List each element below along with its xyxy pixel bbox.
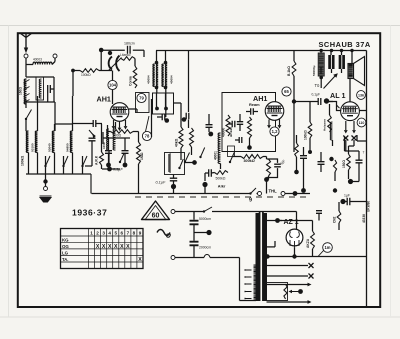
svg-text:Corna: Corna (129, 76, 133, 86)
junction (264, 177, 269, 193)
cap C21 (318, 152, 325, 172)
svg-text:AH1: AH1 (97, 95, 111, 104)
svg-text:03640: 03640 (47, 143, 51, 152)
wire (181, 148, 197, 165)
tuning coil bank L6 (65, 131, 72, 174)
mains switch S7 (249, 188, 262, 204)
wire (240, 258, 257, 301)
wire (292, 247, 296, 259)
grid coil L9 (214, 133, 221, 169)
svg-text:7: 7 (363, 151, 365, 155)
border frame (18, 33, 380, 307)
grid leak resistor R22 (304, 102, 313, 155)
wire (37, 96, 39, 131)
label 160 (19, 87, 23, 95)
tube V2 pins (267, 120, 281, 129)
volume coil (169, 154, 171, 172)
resistor R9 (190, 128, 194, 155)
chassis hatching (135, 196, 306, 198)
grid cap C19 (310, 93, 333, 106)
svg-text:79: 79 (139, 96, 144, 101)
svg-text:100kΩ: 100kΩ (21, 155, 25, 166)
svg-text:2: 2 (96, 231, 99, 236)
resistor R10 (137, 132, 144, 165)
antenna coil L2 (24, 79, 30, 104)
svg-text:300kΩ: 300kΩ (244, 159, 255, 163)
circle 110 (357, 118, 366, 127)
svg-text:1µF: 1µF (344, 194, 350, 198)
svg-text:0,1µF: 0,1µF (156, 181, 166, 185)
circle 136 (357, 91, 366, 100)
tube AH1 V1 (110, 103, 129, 122)
wire (293, 87, 295, 153)
svg-text:B.1kΩ: B.1kΩ (287, 66, 291, 76)
secondary arrow A1 (267, 283, 312, 287)
coupling cap C10 (246, 108, 258, 115)
svg-text:1MΩ: 1MΩ (140, 152, 144, 160)
svg-text:65: 65 (284, 89, 289, 94)
cap C15 (205, 169, 211, 181)
grid resistor R17 (323, 104, 332, 132)
switch S9 (199, 148, 204, 159)
wire (54, 58, 56, 62)
svg-text:1936·37: 1936·37 (72, 208, 107, 218)
svg-text:CN2: CN2 (333, 216, 337, 223)
wire (99, 70, 112, 72)
svg-text:0,1µF: 0,1µF (113, 168, 123, 172)
junction (99, 48, 104, 53)
tube V1 cathode pins (112, 120, 128, 131)
svg-text:5000cm: 5000cm (199, 217, 211, 221)
cap C16 (235, 137, 242, 143)
mains terminal lower (171, 256, 175, 260)
coupling cap C5 (157, 114, 169, 123)
svg-text:5: 5 (114, 231, 117, 236)
grid circle (137, 93, 146, 102)
svg-text:40004: 40004 (170, 75, 174, 84)
resistor R13 (248, 117, 252, 146)
wire (285, 191, 310, 196)
tube AH1 second label (253, 94, 267, 103)
earth-side terminal (53, 54, 57, 58)
transformer core (260, 212, 263, 301)
label (367, 201, 371, 212)
HT choke (312, 53, 324, 88)
coil form (36, 77, 44, 100)
wire (292, 99, 310, 103)
tube V3 pins (343, 121, 356, 151)
svg-text:Tö: Tö (315, 83, 321, 88)
wire (232, 156, 267, 158)
svg-text:8: 8 (133, 231, 136, 236)
svg-text:X: X (114, 244, 118, 250)
transformer primary hatching (256, 214, 260, 301)
svg-text:9: 9 (139, 231, 142, 236)
coil L11 (325, 102, 341, 147)
svg-text:40004: 40004 (147, 75, 151, 84)
wave table X marks (96, 244, 142, 263)
label 0.1uF (113, 168, 123, 172)
terminal (281, 192, 285, 196)
svg-text:2000cm: 2000cm (199, 246, 211, 250)
svg-text:LG: LG (62, 251, 69, 256)
wire (54, 124, 56, 131)
transformer secondary hatching (254, 214, 268, 301)
resistor R12 (222, 115, 233, 137)
wire (101, 49, 125, 51)
label AL1 (330, 91, 345, 100)
label (218, 184, 226, 189)
secondary tap (267, 241, 276, 247)
wire (71, 69, 80, 73)
wire (345, 137, 360, 184)
screen resistor R11 (287, 61, 296, 76)
svg-text:X: X (96, 244, 100, 250)
svg-text:110: 110 (359, 121, 365, 125)
svg-text:7: 7 (127, 231, 130, 236)
page edge scan line left (8, 26, 10, 318)
primary taps (246, 268, 252, 300)
secondary tap centre (265, 254, 276, 258)
screen circle (108, 80, 117, 89)
cap bank rail (103, 132, 130, 144)
label (362, 214, 366, 223)
junction (43, 174, 47, 186)
junction (247, 145, 252, 150)
tube AL1 V3 (337, 79, 367, 121)
wire (100, 50, 102, 71)
switch S2a (44, 156, 50, 174)
wire (165, 88, 167, 118)
switch S6 (228, 146, 235, 163)
heater arrow (289, 289, 303, 294)
svg-text:TA.: TA. (62, 257, 68, 262)
cathode resistor R18 (342, 146, 350, 170)
wire (293, 51, 295, 87)
output transformer wire (357, 135, 367, 141)
antenna terminal (24, 54, 28, 58)
svg-text:40kΩ: 40kΩ (175, 138, 179, 147)
svg-text:60: 60 (152, 213, 160, 220)
svg-text:OG: OG (62, 244, 69, 249)
IF winding T1a (153, 51, 158, 90)
svg-text:180cm: 180cm (124, 42, 135, 46)
svg-text:104: 104 (109, 83, 117, 88)
cap C12 (237, 114, 243, 131)
wire (108, 125, 111, 138)
wave table box (61, 229, 144, 269)
secondary arrow X1 (267, 263, 314, 268)
wire (55, 123, 73, 125)
svg-text:UKW80: UKW80 (367, 201, 371, 212)
IF winding labels (147, 75, 174, 84)
trimmer C3 (89, 130, 96, 141)
svg-text:100kΩ: 100kΩ (81, 73, 91, 77)
switch S5 (178, 159, 183, 169)
coupling cap C6 (182, 113, 189, 122)
speaker (348, 51, 365, 86)
agc resistor R6 (80, 69, 99, 77)
svg-text:50000μ: 50000μ (312, 65, 316, 76)
ground (40, 196, 52, 202)
wire (26, 93, 55, 124)
voltage selector caps (190, 212, 212, 258)
resistor R20 (333, 211, 341, 223)
wire (151, 99, 153, 137)
resistor R5 (129, 59, 137, 89)
svg-text:HF/EW: HF/EW (229, 127, 233, 137)
wave table row labels (62, 238, 69, 263)
rectifier AZ1 V4 (286, 229, 303, 247)
wire (133, 50, 144, 57)
svg-text:400Ω: 400Ω (113, 134, 122, 138)
svg-text:Alkr: Alkr (218, 184, 226, 189)
tube AH1 label (97, 95, 111, 104)
B+ rail right (366, 51, 368, 307)
circle 140 (318, 243, 332, 257)
junction (107, 167, 112, 172)
electrolytic C18 (340, 51, 344, 74)
cap C22 (300, 147, 307, 193)
svg-text:X: X (120, 244, 124, 250)
svg-text:500kΩ: 500kΩ (216, 177, 226, 181)
svg-text:43338: 43338 (362, 214, 366, 223)
antenna coupling coil L1 (26, 58, 55, 65)
chassis bus (91, 174, 250, 194)
page edge scan line bottom (0, 316, 400, 318)
svg-text:Ream: Ream (249, 102, 260, 107)
capacitor C4 (128, 46, 131, 54)
cap C11 (206, 114, 214, 136)
wire HT rail (156, 50, 294, 52)
rectifier resistor R21 (306, 221, 314, 257)
electrolytic C17 (330, 51, 334, 74)
svg-text:6: 6 (121, 231, 124, 236)
mains squiggle (157, 230, 170, 238)
junction (192, 160, 197, 165)
wire coil-bank bus (26, 173, 91, 175)
wire (294, 49, 367, 52)
svg-text:04800: 04800 (65, 143, 69, 152)
detector resistor R14 (241, 155, 263, 164)
page edge scan line top (0, 25, 400, 27)
anode box (136, 93, 150, 113)
page edge scan line right (390, 26, 392, 318)
svg-text:40000: 40000 (222, 128, 226, 137)
RC network R15 C13 (267, 157, 281, 180)
circle 78 (142, 131, 151, 140)
svg-text:1,2: 1,2 (272, 129, 278, 134)
secondary arrow A2 (267, 300, 312, 304)
svg-text:X: X (102, 244, 106, 250)
tuning coil bank L4 (30, 131, 37, 174)
wire (54, 124, 56, 131)
triangle 60 (142, 201, 170, 220)
label Beam (249, 102, 260, 107)
wire (175, 211, 203, 213)
vertical feed (188, 51, 190, 113)
wire (133, 131, 139, 133)
grid resistor R4 (120, 53, 135, 60)
svg-text:Litzeko: Litzeko (120, 53, 131, 57)
svg-text:40003: 40003 (33, 58, 42, 62)
switch S4 (119, 153, 124, 163)
svg-text:X: X (138, 257, 142, 263)
band switch S1 (25, 110, 32, 132)
svg-text:THL: THL (269, 189, 278, 194)
chassis terminal (44, 187, 48, 191)
label AZ1 (284, 219, 299, 226)
wire (204, 185, 206, 194)
wire (174, 102, 182, 104)
svg-text:160Ω: 160Ω (19, 87, 23, 95)
secondary tap HT top (267, 218, 283, 223)
volume box (165, 153, 185, 175)
wire (320, 51, 322, 75)
svg-text:78: 78 (145, 134, 150, 139)
tone switch (315, 73, 338, 88)
svg-text:SCHAUB 37A: SCHAUB 37A (319, 40, 371, 49)
svg-text:3: 3 (102, 231, 105, 236)
year 1936-37 (72, 208, 107, 218)
variable capacitor VC1 (108, 51, 122, 71)
svg-text:AKZA: AKZA (306, 238, 310, 248)
grid cap C14 (228, 121, 235, 127)
wire (85, 141, 92, 166)
wave table grid (61, 229, 144, 269)
svg-text:1m: 1m (324, 245, 330, 250)
title SCHAUB 37A (319, 40, 371, 49)
label THL (269, 189, 278, 194)
wire (278, 211, 323, 221)
mains terminal upper (171, 210, 175, 214)
wire (102, 168, 120, 170)
oscillator coil L8 (113, 122, 115, 150)
svg-text:4: 4 (108, 231, 111, 236)
bandpass box (222, 93, 276, 152)
resistor R19 (294, 135, 299, 174)
tube V2 AH1 (265, 102, 284, 121)
wire (129, 109, 137, 113)
blocking cap C8 (122, 138, 129, 167)
heater winding taps with arrows (0, 0, 1, 1)
blocking cap C7 (105, 138, 112, 167)
IF winding T1b (162, 51, 167, 90)
circle 65 (282, 87, 291, 96)
label NF (280, 159, 287, 166)
antenna (20, 33, 32, 53)
oscillator coil L7 (102, 129, 109, 166)
circle 1.2 (270, 127, 279, 136)
cathode resistor R7 (111, 130, 134, 138)
fuse (175, 255, 240, 258)
svg-text:A.R.K: A.R.K (95, 155, 99, 165)
primary tap dots (245, 270, 246, 299)
wire (138, 164, 140, 194)
tuning coil bank L3 (26, 131, 28, 174)
svg-text:03100: 03100 (30, 143, 34, 152)
cathode cap C20 (356, 151, 365, 171)
switch S2b (62, 156, 68, 174)
svg-text:Heizann: Heizann (323, 119, 327, 131)
secondary arrow X2 (267, 274, 314, 279)
tuning box (153, 93, 174, 114)
mains switch S8 (203, 207, 297, 229)
padding capacitor C2 (73, 120, 102, 127)
svg-text:AL 1: AL 1 (330, 91, 345, 100)
svg-text:X: X (108, 244, 112, 250)
svg-text:150Ω: 150Ω (342, 160, 346, 168)
switch S3 (184, 153, 190, 164)
wire (112, 71, 114, 105)
resistor R8 (175, 103, 184, 148)
wire (25, 58, 27, 77)
wire (156, 88, 158, 94)
svg-text:100kΩ: 100kΩ (304, 130, 308, 140)
svg-text:KG: KG (62, 238, 69, 243)
trimmer capacitor (48, 77, 54, 102)
wire (26, 76, 54, 78)
wire (72, 71, 74, 97)
svg-text:0,1µF: 0,1µF (312, 93, 321, 97)
switch S2c (81, 156, 87, 174)
heater box (267, 283, 288, 301)
label (95, 155, 99, 165)
decoupling cap C23 (340, 194, 366, 206)
wire (72, 96, 74, 131)
svg-text:X: X (126, 244, 130, 250)
svg-text:136: 136 (358, 93, 364, 97)
label 0.1uF (156, 181, 166, 185)
cap C9 (170, 175, 177, 194)
junction (329, 157, 337, 193)
resistor R16 (202, 171, 228, 187)
wire (338, 202, 340, 230)
wire slanted (146, 116, 150, 132)
svg-text:9: 9 (249, 198, 252, 204)
svg-text:1: 1 (90, 231, 93, 236)
wave table header numbers (90, 231, 141, 236)
wire (188, 120, 190, 129)
tuning coil bank L5 (47, 131, 54, 174)
label (21, 155, 25, 166)
label 180cm (124, 42, 135, 46)
svg-text:40001: 40001 (214, 151, 218, 160)
bus to B+ (277, 256, 367, 258)
resistor R3 (100, 124, 104, 169)
